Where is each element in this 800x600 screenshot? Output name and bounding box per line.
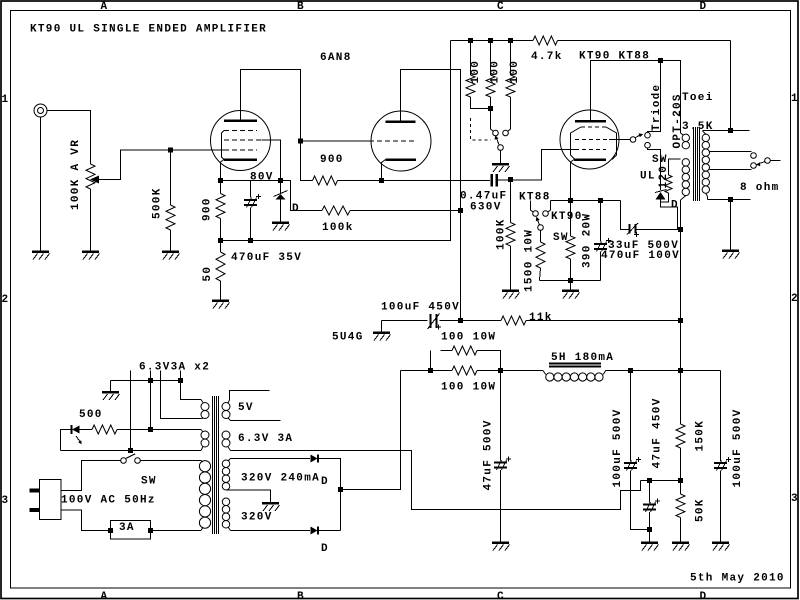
svg-text:D: D xyxy=(321,543,329,555)
diode rectifier top xyxy=(311,455,318,463)
wire B+ rail xyxy=(451,40,534,42)
svg-text:47uF 450V: 47uF 450V xyxy=(652,397,664,468)
wire switch to primary xyxy=(140,460,201,462)
svg-text:8 ohm: 8 ohm xyxy=(740,182,780,194)
KT90 grid g1 xyxy=(575,149,606,151)
capacitor 470uF 35V xyxy=(250,181,252,198)
capacitor 47uF 450V xyxy=(649,481,651,503)
capacitor 100uF 500V first xyxy=(630,371,632,462)
wire filter to choke xyxy=(501,370,544,372)
wire jack sleeve to ground xyxy=(40,117,42,252)
transformer T1 left 6.3V winding 1 xyxy=(201,403,209,419)
node kt90 cathode xyxy=(568,198,573,203)
resistor 500 pilot xyxy=(80,429,93,431)
capacitor 33uF 470uF bypass xyxy=(600,201,602,242)
node 11k plate drop xyxy=(458,318,463,323)
switch feedback select contact a xyxy=(493,130,499,136)
6AN8 triode grid xyxy=(369,140,417,142)
svg-text:3: 3 xyxy=(2,495,10,507)
switch cathode KT88 contact stub xyxy=(531,201,534,213)
transformer T1 6.3V 3A winding xyxy=(222,431,230,447)
resistor 1500 10W xyxy=(540,230,542,242)
node primary bottom xyxy=(678,227,683,232)
wire jack to pot xyxy=(47,111,91,165)
resistor 50 xyxy=(216,252,225,281)
wire rail to ground xyxy=(110,381,112,393)
node cathode feedback xyxy=(218,238,223,243)
KT90 plate lead xyxy=(591,61,661,122)
svg-text:50: 50 xyxy=(202,266,214,282)
svg-text:2: 2 xyxy=(2,294,10,306)
pot wiper arrow xyxy=(90,176,99,184)
diode D UL xyxy=(655,190,667,193)
switch blade to triode contact xyxy=(635,135,639,137)
svg-text:5th May 2010: 5th May 2010 xyxy=(690,573,785,585)
wire ultra-path cap to primary bottom xyxy=(636,229,681,231)
heater stub 4 xyxy=(181,371,202,400)
wire triode contact to plate node xyxy=(648,61,661,133)
ground heater rail xyxy=(102,391,119,394)
ground 500K xyxy=(162,250,179,253)
wire 5V bottom lead xyxy=(228,418,231,421)
svg-text:120: 120 xyxy=(658,165,670,189)
svg-text:100: 100 xyxy=(490,60,502,84)
wire grid node to 6AN8 pentode g1 xyxy=(171,149,225,151)
switch UL contact xyxy=(645,142,651,148)
svg-text:D: D xyxy=(321,476,329,488)
6AN8 pentode grid g3 xyxy=(224,130,257,132)
wire B+ to filter xyxy=(341,371,401,490)
switch Triode contact xyxy=(645,132,651,138)
OPT secondary top lead xyxy=(703,131,706,135)
svg-text:470uF 35V: 470uF 35V xyxy=(231,252,302,264)
wire screen row xyxy=(641,480,681,482)
wire 5V top lead xyxy=(228,400,230,403)
6AN8 pentode grid g2 xyxy=(224,139,262,141)
node secondary ground xyxy=(728,197,733,202)
resistor 100 second xyxy=(490,41,492,76)
diode rectifier bottom xyxy=(311,527,318,535)
heater stub 3 xyxy=(161,371,202,419)
node plate top xyxy=(658,58,663,63)
6AN8 pentode grid g1 xyxy=(224,149,257,151)
svg-text:5U4G: 5U4G xyxy=(332,332,364,344)
transformer T1 HV winding lower xyxy=(222,498,230,528)
svg-text:5V: 5V xyxy=(238,402,254,414)
switch output pole xyxy=(765,158,771,164)
KT90 g3 strap left xyxy=(571,127,582,160)
resistor 100 third xyxy=(510,41,512,76)
switch cathode blade with arrow xyxy=(538,220,540,225)
svg-text:320V 240mA: 320V 240mA xyxy=(241,473,320,485)
svg-text:KT90: KT90 xyxy=(551,211,583,223)
node 47uF 450V bottom xyxy=(647,527,652,532)
node rail R2 xyxy=(488,38,493,43)
svg-text:500: 500 xyxy=(79,409,103,421)
svg-text:100uF 450V: 100uF 450V xyxy=(381,302,460,314)
svg-text:3A: 3A xyxy=(119,522,135,534)
ground 100K xyxy=(502,289,519,292)
node screen cap xyxy=(647,478,652,483)
svg-text:6.3V3A x2: 6.3V3A x2 xyxy=(139,362,210,374)
svg-text:47uF 500V: 47uF 500V xyxy=(483,419,495,490)
node g2 decouple xyxy=(278,178,283,183)
tube 6AN8 triode envelope xyxy=(371,111,431,171)
resistor 500K xyxy=(170,150,172,205)
svg-text:100 10W: 100 10W xyxy=(441,382,496,394)
node pentode cathode xyxy=(218,178,223,183)
capacitor 100uF 450V xyxy=(430,314,432,328)
switch feedback select contact b xyxy=(503,130,509,136)
choke 5H 180mA xyxy=(549,363,601,365)
svg-text:150K: 150K xyxy=(695,420,707,452)
6AN8 triode cathode lead xyxy=(382,160,386,181)
svg-text:KT90 UL SINGLE ENDED AMPLIFIER: KT90 UL SINGLE ENDED AMPLIFIER xyxy=(30,24,267,36)
svg-text:900: 900 xyxy=(320,154,344,166)
tube 6AN8 pentode envelope xyxy=(211,111,271,171)
transformer T1 left 6.3V winding 2 xyxy=(201,431,209,447)
wire LED left xyxy=(61,430,72,451)
resistor 50K xyxy=(680,481,682,495)
capacitor 0.47uF 630V xyxy=(490,174,493,187)
svg-text:100k: 100k xyxy=(322,222,354,234)
6AN8 triode cathode xyxy=(386,158,417,161)
input jack J1 xyxy=(34,104,47,117)
OPT secondary bottom lead xyxy=(706,193,708,199)
transformer T1 5V winding xyxy=(222,403,230,419)
node grid junction xyxy=(168,148,173,153)
svg-text:900: 900 xyxy=(202,197,214,221)
resistor 900 cathode xyxy=(220,181,222,194)
svg-text:SW: SW xyxy=(652,154,668,166)
OPT core xyxy=(693,127,695,201)
wire HV top lead xyxy=(228,459,231,462)
switch output contact upper xyxy=(751,153,757,159)
6AN8 pentode cathode lead xyxy=(221,160,225,181)
fuse 3A xyxy=(111,521,151,540)
KT90 cathode xyxy=(574,158,606,161)
pilot LED xyxy=(71,425,73,434)
transformer T1 HV winding upper xyxy=(222,460,230,490)
switch cathode KT90 contact xyxy=(548,201,551,213)
heater ground rail xyxy=(111,380,181,382)
wire g2 to decoupling node xyxy=(262,140,281,181)
wire g2 to pole xyxy=(609,139,630,141)
wire g2 node to 100k xyxy=(281,181,323,211)
capacitor N ultra-path xyxy=(621,201,630,230)
svg-text:80V: 80V xyxy=(250,172,274,184)
svg-text:100V AC 50Hz: 100V AC 50Hz xyxy=(61,495,156,507)
6AN8 pentode plate xyxy=(224,119,257,122)
node coupling cap out xyxy=(508,177,513,182)
svg-text:Toei: Toei xyxy=(682,92,714,104)
node secondary top feedback xyxy=(728,128,733,133)
ground 50 xyxy=(212,299,229,302)
wire pot wiper to grid node xyxy=(99,150,171,180)
wire secondary bottom xyxy=(708,199,751,201)
6AN8 pentode cathode xyxy=(224,158,257,161)
svg-text:C: C xyxy=(497,591,505,600)
plug P1 xyxy=(40,480,62,520)
KT90 g3 strap right xyxy=(606,127,617,160)
resistor 100K grid leak xyxy=(510,180,512,223)
switch cathode pole xyxy=(538,225,544,231)
resistor 120 UL tap xyxy=(669,159,681,175)
wire UL contact down xyxy=(648,148,661,190)
svg-text:A: A xyxy=(101,1,109,13)
wire HV center tap xyxy=(227,490,271,503)
output blade xyxy=(759,162,766,164)
wire output pole xyxy=(770,160,780,162)
wire choke out row xyxy=(631,370,721,372)
node cap bottom xyxy=(248,238,253,243)
node pilot junction xyxy=(148,427,153,432)
resistor 100 10W upper xyxy=(441,350,453,352)
ground cathode network xyxy=(562,289,579,292)
switch blade xyxy=(497,138,500,145)
node filter in xyxy=(498,368,503,373)
node choke out xyxy=(628,368,633,373)
node heater bottom xyxy=(128,448,133,453)
resistor 11k xyxy=(501,316,526,325)
wire 6.3V heater run xyxy=(228,447,231,451)
svg-text:100: 100 xyxy=(509,60,521,84)
svg-text:100uF 500V: 100uF 500V xyxy=(732,408,744,487)
svg-text:390 20W: 390 20W xyxy=(582,213,594,268)
ground switch pole xyxy=(492,163,509,166)
svg-text:470uF 100V: 470uF 100V xyxy=(601,250,680,262)
svg-text:SW: SW xyxy=(141,476,157,488)
svg-text:100: 100 xyxy=(470,60,482,84)
wire secondary tap upper xyxy=(710,151,752,153)
svg-text:B: B xyxy=(297,591,305,600)
KT90 grid g2 xyxy=(575,139,609,141)
heater stub 1 xyxy=(130,371,132,451)
wire triode grid lead xyxy=(301,140,370,142)
6AN8 pentode plate lead xyxy=(241,70,301,142)
node cathode network ground xyxy=(568,278,573,283)
ground secondary xyxy=(722,249,739,252)
wire heater bottom lead xyxy=(61,450,202,452)
KT90 grid lead from coupling cap xyxy=(511,150,576,181)
svg-text:2: 2 xyxy=(791,293,799,305)
node heater rail b xyxy=(178,378,183,383)
heater stub 2 xyxy=(150,371,152,430)
capacitor 100uF 500V second xyxy=(720,371,722,462)
svg-text:6AN8: 6AN8 xyxy=(320,52,352,64)
switch mains blade xyxy=(126,454,135,459)
node rail R3 xyxy=(508,38,513,43)
ground center tap xyxy=(262,502,279,505)
svg-text:100 10W: 100 10W xyxy=(441,332,496,344)
wire secondary tap lower xyxy=(710,169,752,171)
svg-text:6.3V 3A: 6.3V 3A xyxy=(238,433,293,445)
wire feedback row to B+ rail drop xyxy=(221,41,451,241)
svg-text:11k: 11k xyxy=(529,312,553,324)
svg-text:4.7k: 4.7k xyxy=(531,51,563,63)
stub junction upper xyxy=(430,351,432,371)
dashed link xyxy=(471,118,492,140)
wire HV top diode to B+ xyxy=(318,459,341,531)
svg-text:500K: 500K xyxy=(152,187,164,219)
wire plug live xyxy=(61,461,121,491)
wire cathode row kt90 xyxy=(551,200,621,202)
wire cathode network bottom xyxy=(540,280,601,282)
svg-text:100K: 100K xyxy=(496,218,508,250)
svg-text:D: D xyxy=(292,203,300,215)
resistor 100 first xyxy=(470,41,472,76)
6AN8 pentode g3-cathode strap xyxy=(222,131,225,160)
wire plate to OPT primary top xyxy=(661,61,681,134)
capacitor 47uF 500V xyxy=(500,371,502,461)
resistor 900 grid-cathode xyxy=(301,141,313,181)
KT90 cathode lead xyxy=(571,160,575,201)
wire 11k row xyxy=(382,320,428,322)
switch UL-Triode pole xyxy=(630,137,636,143)
transformer T1 core xyxy=(212,396,214,534)
node 11k B+ xyxy=(678,318,683,323)
ground 47uF 500V xyxy=(492,541,509,544)
node 100k to plate drop xyxy=(458,208,463,213)
wire HV bottom lead xyxy=(228,527,231,531)
6AN8 triode plate lead xyxy=(401,70,461,321)
resistor 4.7k xyxy=(533,36,558,45)
ground 50K xyxy=(672,541,689,544)
potentiometer 100K A VR xyxy=(86,164,95,189)
ground 47uF 450V xyxy=(641,541,658,544)
node heater rail a xyxy=(148,378,153,383)
svg-text:5H 180mA: 5H 180mA xyxy=(551,352,614,364)
svg-text:C: C xyxy=(497,1,505,13)
wire fuse to primary xyxy=(151,530,202,532)
OPT primary winding xyxy=(682,134,689,196)
resistor 390 20W xyxy=(570,201,572,237)
node B+ final xyxy=(678,368,683,373)
resistor 150K xyxy=(680,371,682,425)
ground 5U4G stub xyxy=(381,321,383,333)
node rail R1 xyxy=(468,38,473,43)
svg-text:320V: 320V xyxy=(241,512,273,524)
svg-text:D: D xyxy=(700,1,708,13)
wire cathode row xyxy=(221,180,281,182)
ground 100uF second xyxy=(712,541,729,544)
svg-text:100uF 500V: 100uF 500V xyxy=(612,408,624,487)
zener diode D g2 regulator xyxy=(280,181,282,195)
ground D g2 xyxy=(272,221,289,224)
wire pot bottom to ground xyxy=(90,189,92,252)
label + ultra-path xyxy=(634,232,639,237)
node rectifier B+ xyxy=(338,487,343,492)
svg-text:B: B xyxy=(297,1,305,13)
svg-text:1500 10W: 1500 10W xyxy=(524,229,536,292)
svg-text:UL: UL xyxy=(640,171,656,183)
OPT primary bottom lead xyxy=(681,196,686,200)
wire secondary top xyxy=(703,130,750,132)
node screen divider xyxy=(678,478,683,483)
node bypass cap top xyxy=(598,198,603,203)
svg-text:KT88: KT88 xyxy=(519,192,551,204)
node triode grid xyxy=(298,139,303,144)
wire feedback rail drop xyxy=(730,41,732,131)
tube KT90 envelope xyxy=(560,110,619,169)
wire plug neutral xyxy=(61,510,111,531)
switch mains contact a xyxy=(121,458,127,464)
svg-text:100K A VR: 100K A VR xyxy=(70,139,82,210)
switch mains contact b xyxy=(135,458,141,464)
svg-text:Triode: Triode xyxy=(651,84,663,131)
ground pot xyxy=(82,250,99,253)
resistor 100 10W lower xyxy=(401,370,453,372)
svg-text:630V: 630V xyxy=(470,202,502,214)
svg-text:A: A xyxy=(101,591,109,600)
transformer T1 primary 100V winding xyxy=(199,461,210,529)
svg-text:50K: 50K xyxy=(695,498,707,522)
node 100 join xyxy=(488,106,493,111)
wire join to switch contact xyxy=(491,109,494,132)
switch feedback select pole xyxy=(498,145,504,151)
node triode cathode xyxy=(379,178,384,183)
svg-text:1: 1 xyxy=(791,93,799,105)
svg-text:D: D xyxy=(671,200,679,212)
ground jack xyxy=(32,250,49,253)
switch output contact lower xyxy=(751,163,757,169)
6AN8 triode plate xyxy=(386,120,416,123)
wire pole to ground xyxy=(500,150,502,164)
svg-text:3: 3 xyxy=(791,493,799,505)
OPT secondary winding xyxy=(702,134,709,193)
wire cathode to coupling cap xyxy=(382,180,491,182)
KT90 grid g3 xyxy=(581,126,606,128)
KT90 plate xyxy=(575,120,606,123)
wire OPT B+ drop xyxy=(680,230,682,371)
svg-text:D: D xyxy=(700,591,708,600)
svg-text:1: 1 xyxy=(2,94,10,106)
resistor 100k xyxy=(322,206,350,215)
